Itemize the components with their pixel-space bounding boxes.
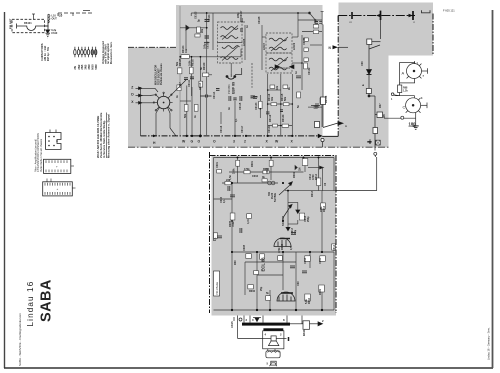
svg-text:C: C bbox=[403, 105, 406, 110]
svg-text:Z: Z bbox=[131, 85, 133, 89]
svg-text:R614: R614 bbox=[315, 173, 318, 180]
svg-text:C6104: C6104 bbox=[208, 14, 211, 22]
svg-text:C610: C610 bbox=[51, 32, 58, 35]
svg-text:FM ANT: FM ANT bbox=[8, 18, 12, 29]
svg-text:5p: 5p bbox=[198, 19, 201, 22]
svg-text:4: 4 bbox=[265, 333, 267, 337]
svg-text:C6103: C6103 bbox=[195, 11, 198, 19]
svg-text:in Service Stell. letzte Stel: in Service Stell. letzte Stellg. bbox=[102, 120, 106, 158]
svg-text:C601: C601 bbox=[216, 161, 219, 168]
svg-text:2xAA119: 2xAA119 bbox=[280, 66, 291, 70]
svg-text:0: 0 bbox=[252, 318, 254, 322]
svg-text:54/750k: 54/750k bbox=[274, 192, 277, 202]
svg-text:O: O bbox=[198, 140, 201, 144]
svg-text:R606: R606 bbox=[249, 290, 256, 293]
svg-text:OUT: OUT bbox=[52, 18, 58, 21]
svg-text:C6124: C6124 bbox=[268, 125, 271, 133]
svg-text:2: 2 bbox=[244, 140, 246, 144]
svg-text:C6123: C6123 bbox=[255, 102, 258, 110]
svg-text:C6117: C6117 bbox=[241, 125, 244, 133]
svg-text:R602: R602 bbox=[263, 168, 270, 171]
svg-text:C611: C611 bbox=[319, 258, 322, 264]
svg-text:Messwerte n. Serv.: Messwerte n. Serv. bbox=[110, 41, 113, 64]
svg-text:1n: 1n bbox=[295, 71, 298, 74]
svg-text:Messung ohne Antenne o. Signal: Messung ohne Antenne o. Signal bbox=[107, 114, 111, 158]
svg-text:5: 5 bbox=[267, 362, 269, 366]
svg-text:SABA - SERVICE - Oszillografen: SABA - SERVICE - Oszillografenkurven bbox=[18, 313, 22, 366]
svg-text:3b: 3b bbox=[262, 176, 265, 179]
svg-text:R6119: R6119 bbox=[269, 114, 272, 122]
svg-text:C6107: C6107 bbox=[240, 10, 243, 18]
svg-text:R601: R601 bbox=[251, 160, 254, 167]
svg-text:R6101: R6101 bbox=[24, 21, 32, 25]
svg-text:10µ: 10µ bbox=[294, 229, 297, 234]
svg-text:C608: C608 bbox=[243, 244, 246, 251]
svg-text:11k: 11k bbox=[185, 48, 188, 53]
svg-text:0,1: 0,1 bbox=[223, 199, 226, 203]
svg-text:1,5n: 1,5n bbox=[229, 175, 232, 180]
svg-text:R613: R613 bbox=[311, 190, 314, 197]
svg-text:170k: 170k bbox=[244, 168, 250, 171]
svg-text:L6105: L6105 bbox=[243, 38, 246, 46]
svg-text:Lindau 16 - Germany - Serv.: Lindau 16 - Germany - Serv. bbox=[487, 327, 491, 360]
svg-text:EBF 89: EBF 89 bbox=[232, 82, 236, 94]
svg-text:R6109: R6109 bbox=[203, 62, 206, 70]
svg-text:2: 2 bbox=[280, 333, 282, 337]
svg-text:C60: C60 bbox=[297, 281, 300, 286]
svg-text:5n: 5n bbox=[297, 105, 300, 108]
svg-text:1: 1 bbox=[391, 98, 393, 101]
svg-text:F 605 121: F 605 121 bbox=[443, 9, 455, 13]
svg-text:C6115: C6115 bbox=[239, 102, 242, 110]
svg-text:0,1: 0,1 bbox=[214, 237, 217, 241]
svg-text:50k: 50k bbox=[284, 96, 287, 101]
svg-text:R67: R67 bbox=[379, 103, 382, 108]
svg-text:C6120: C6120 bbox=[303, 37, 306, 45]
svg-text:30k: 30k bbox=[271, 96, 274, 101]
svg-text:Punkte am chassis: Punkte am chassis bbox=[160, 63, 163, 85]
svg-text:250p: 250p bbox=[307, 216, 310, 222]
svg-text:10k: 10k bbox=[276, 85, 279, 90]
svg-text:2N: 2N bbox=[73, 66, 77, 69]
svg-text:C614: C614 bbox=[333, 244, 336, 251]
svg-text:G: G bbox=[191, 140, 194, 144]
svg-text:C604: C604 bbox=[252, 175, 259, 178]
svg-text:L6107: L6107 bbox=[263, 42, 266, 50]
svg-text:4,7n: 4,7n bbox=[247, 219, 250, 224]
svg-text:C610: C610 bbox=[304, 257, 307, 264]
svg-text:25p: 25p bbox=[260, 286, 263, 291]
svg-text:W6: W6 bbox=[383, 114, 386, 118]
svg-text:R6105: R6105 bbox=[179, 58, 182, 66]
svg-text:35M: 35M bbox=[87, 64, 91, 70]
svg-text:L6: L6 bbox=[59, 14, 63, 18]
svg-text:2: 2 bbox=[322, 319, 324, 323]
svg-text:1M: 1M bbox=[299, 168, 302, 171]
svg-text:1,2k: 1,2k bbox=[403, 90, 408, 93]
svg-text:R608: R608 bbox=[281, 243, 284, 250]
svg-text:R612: R612 bbox=[323, 205, 326, 212]
svg-text:50k: 50k bbox=[184, 113, 187, 118]
svg-text:220k: 220k bbox=[233, 168, 236, 174]
svg-text:C6122: C6122 bbox=[308, 67, 311, 75]
svg-text:C6108: C6108 bbox=[258, 16, 261, 24]
svg-text:0,1: 0,1 bbox=[235, 118, 238, 122]
svg-text:3: 3 bbox=[421, 97, 423, 100]
svg-text:ECL 86: ECL 86 bbox=[261, 257, 266, 272]
svg-text:C617: C617 bbox=[179, 82, 182, 88]
svg-text:C6111: C6111 bbox=[188, 79, 191, 87]
svg-text:+: + bbox=[56, 165, 58, 169]
svg-text:180: 180 bbox=[409, 122, 417, 127]
svg-text:0,5: 0,5 bbox=[290, 246, 293, 250]
svg-text:C6116: C6116 bbox=[220, 125, 223, 133]
svg-text:3: 3 bbox=[233, 140, 235, 144]
svg-text:N: N bbox=[329, 46, 332, 50]
svg-text:FM 1µ : 5%: FM 1µ : 5% bbox=[46, 46, 50, 61]
svg-text:C6105: C6105 bbox=[207, 41, 210, 49]
svg-text:R66: R66 bbox=[369, 139, 372, 144]
svg-text:50M: 50M bbox=[94, 64, 98, 70]
svg-text:7: 7 bbox=[423, 75, 425, 78]
svg-text:20k: 20k bbox=[201, 28, 204, 33]
svg-text:8: 8 bbox=[283, 318, 285, 322]
svg-text:Punkt Reihe 1 frei am chas: Punkt Reihe 1 frei am chassis bbox=[40, 138, 43, 172]
svg-text:C6114: C6114 bbox=[213, 91, 216, 99]
svg-text:NF-Platte: NF-Platte bbox=[215, 281, 219, 294]
svg-text:SABA: SABA bbox=[39, 279, 55, 322]
svg-text:10p: 10p bbox=[314, 18, 317, 23]
svg-text:R609: R609 bbox=[319, 288, 322, 295]
svg-text:1n: 1n bbox=[246, 25, 249, 28]
svg-text:3N5: 3N5 bbox=[83, 64, 87, 69]
svg-text:C615: C615 bbox=[230, 321, 234, 328]
svg-text:R60: R60 bbox=[234, 260, 237, 265]
svg-text:Lindau 16: Lindau 16 bbox=[26, 281, 35, 327]
svg-text:R6120: R6120 bbox=[282, 114, 285, 122]
svg-text:R602: R602 bbox=[293, 171, 296, 178]
svg-text:R610: R610 bbox=[308, 297, 311, 304]
svg-text:L6109: L6109 bbox=[293, 42, 296, 50]
svg-text:C6113: C6113 bbox=[199, 82, 202, 90]
svg-text:2: 2 bbox=[246, 318, 248, 322]
svg-text:+: + bbox=[57, 187, 59, 191]
svg-text:M50: M50 bbox=[91, 64, 95, 70]
svg-text:4n: 4n bbox=[228, 107, 231, 110]
svg-text:O: O bbox=[213, 140, 216, 144]
svg-text:C66: C66 bbox=[361, 61, 364, 66]
svg-text:R611: R611 bbox=[302, 329, 306, 336]
svg-text:A: A bbox=[402, 71, 405, 76]
svg-text:R6107: R6107 bbox=[192, 58, 195, 66]
svg-text:n: n bbox=[345, 124, 347, 128]
svg-text:P10 801: P10 801 bbox=[227, 84, 231, 94]
